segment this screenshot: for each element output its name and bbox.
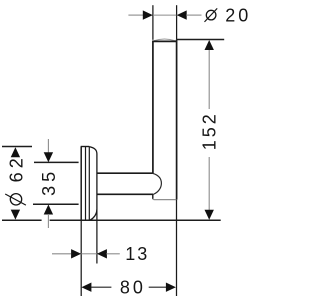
80 dimension line right segment [149, 286, 166, 288]
label Ø 62 : diameter symbol circle [10, 194, 21, 205]
35 lower tail [47, 214, 49, 228]
Ø62 top extension line [2, 146, 32, 148]
Ø62 up arrow [11, 147, 20, 157]
80 right arrow pointing right [166, 283, 176, 292]
wall plate face contour [89, 147, 97, 221]
wall plate back edge [80, 147, 82, 221]
label Ø 62 : diameter symbol slash [5, 194, 26, 205]
arm top line [97, 172, 153, 174]
13 dimension line right stub [106, 253, 119, 255]
Ø20 dimension line left stub [128, 14, 143, 16]
bottom extension line segment B (to right end) [50, 219, 221, 221]
152 down arrow [205, 210, 214, 220]
svg-text:20: 20 [225, 6, 251, 26]
right extension line below tube [176, 200, 178, 296]
svg-text:152: 152 [200, 111, 220, 150]
label Ø 20 : diameter symbol circle [206, 10, 216, 20]
plate face extension line down [96, 210, 98, 264]
35 bottom boundary line [33, 203, 79, 205]
tube right edge [176, 40, 178, 200]
label Ø 20 : diameter symbol slash [205, 8, 218, 22]
Ø20 left arrow pointing right [143, 10, 153, 19]
152 up arrow [205, 40, 214, 50]
tube top cap upper arc (gray rim) [154, 39, 176, 41]
80 left arrow pointing left [81, 283, 91, 292]
13 right arrow pointing left [97, 249, 107, 258]
35 upper tail [47, 139, 49, 153]
152 dimension line lower segment [208, 157, 210, 211]
152 top extension line [177, 39, 225, 41]
tube bottom cap line (gray) [153, 199, 177, 200]
svg-text:35: 35 [39, 168, 59, 196]
35 top boundary line [34, 161, 79, 163]
tube left edge [152, 41, 154, 174]
Ø20 right arrow pointing left [177, 10, 187, 19]
extension line right of Ø20 (tube right edge extended up) [176, 5, 178, 40]
wall plate inner vertical 2 [88, 147, 90, 221]
svg-text:80: 80 [120, 278, 146, 298]
svg-text:62: 62 [7, 154, 27, 182]
wall plate inner vertical 1 [85, 147, 87, 221]
13 left arrow pointing right [71, 249, 81, 258]
152 dimension line upper segment [208, 49, 210, 109]
13 dimension line middle segment [81, 253, 97, 255]
35 up arrow [44, 205, 53, 215]
13 dimension line left stub [52, 253, 71, 255]
Ø62 down arrow [11, 210, 20, 220]
tube bottom small left drop [152, 194, 154, 199]
Ø20 dimension line middle segment [153, 14, 176, 16]
left extension line below plate (wall line) [80, 220, 82, 296]
Ø20 dimension line right stub [186, 14, 201, 16]
arm bottom line [97, 193, 153, 195]
svg-text:13: 13 [125, 244, 149, 264]
extension line left of Ø20 (tube left edge extended up) [152, 5, 154, 40]
80 dimension line left segment [91, 286, 112, 288]
tube top cap lower edge (dark) [153, 40, 177, 42]
arm end bulge at tube [153, 173, 162, 194]
35 down arrow [44, 152, 53, 162]
wall plate top edge [81, 146, 90, 148]
bottom extension line segment A (left of 35 tail) [2, 219, 42, 221]
